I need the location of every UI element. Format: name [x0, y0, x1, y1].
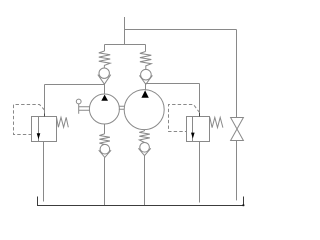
spring of check valve CV3: [99, 134, 110, 145]
spring of check valve CV4: [139, 131, 150, 143]
relief valve RV2 arrowhead: [191, 133, 195, 139]
wire: RV1 outlet to tank: [43, 142, 45, 202]
wire: main inlet vertical: [124, 17, 126, 45]
wire: right header to relief valve RV2: [146, 83, 200, 85]
wire: right rail upper: [236, 30, 238, 118]
check valve CV3 seat: [99, 150, 111, 157]
drive shaft of pump P1: [79, 104, 90, 114]
check valve CV2 seat: [139, 75, 152, 84]
pump P1 flow triangle: [101, 95, 108, 101]
pilot line of RV1 (dashed): [14, 105, 45, 135]
tank rail (dark): [38, 197, 244, 206]
relief valve RV1 arrowhead: [37, 133, 41, 139]
junction tick at RV2 inlet: [199, 113, 201, 117]
check valve CV4 ball: [140, 143, 150, 153]
wire: right rail lower: [236, 141, 238, 201]
wire: RV2 outlet to tank: [199, 142, 201, 203]
spring of check valve CV1: [99, 51, 110, 68]
check valve CV1 seat: [98, 75, 111, 85]
junction dot bottom right: [242, 204, 244, 206]
wire: CV3 to tank rail: [104, 157, 106, 205]
spring of RV1: [57, 117, 69, 127]
relief valve RV1 internal flow line: [38, 117, 40, 142]
check valve CV1 ball: [99, 68, 109, 78]
wire: CV4 to tank rail: [144, 156, 146, 205]
junction tick at RV1 inlet: [44, 114, 46, 117]
check valve CV2 ball: [141, 69, 152, 80]
spring of check valve CV2: [140, 52, 151, 70]
wire: CV2 outlet to pump P2: [145, 84, 147, 90]
wire: branch to right rail: [125, 29, 237, 31]
relief valve RV1 body: [32, 117, 57, 142]
check valve CV3 ball: [100, 144, 110, 154]
shaft end circle: [76, 99, 81, 104]
wire: pump P2 suction stub: [144, 130, 146, 131]
wire: CV1 outlet to pump P1: [104, 84, 106, 94]
check valve CV4 seat: [138, 148, 150, 155]
relief valve RV2 body: [187, 117, 210, 142]
spring of RV2: [210, 117, 223, 127]
wire: left branch drop: [104, 45, 106, 52]
shaft coupling between pumps: [119, 106, 125, 109]
relief valve RV2 internal flow line: [192, 117, 194, 142]
wire: right branch drop: [145, 45, 147, 52]
pump P2 body: [124, 90, 164, 130]
wire: RV1 supply drop: [44, 85, 46, 117]
pump P1 body: [89, 94, 119, 124]
shut-off valve V1: [231, 118, 244, 141]
wire: left header to relief valve RV1: [45, 84, 105, 86]
pilot line of RV2 (dashed): [169, 105, 200, 132]
wire: RV2 supply drop: [199, 84, 201, 117]
wire: pump P1 suction stub: [104, 124, 106, 134]
wire: tee header: [105, 44, 146, 46]
pump P2 flow triangle: [141, 90, 148, 97]
